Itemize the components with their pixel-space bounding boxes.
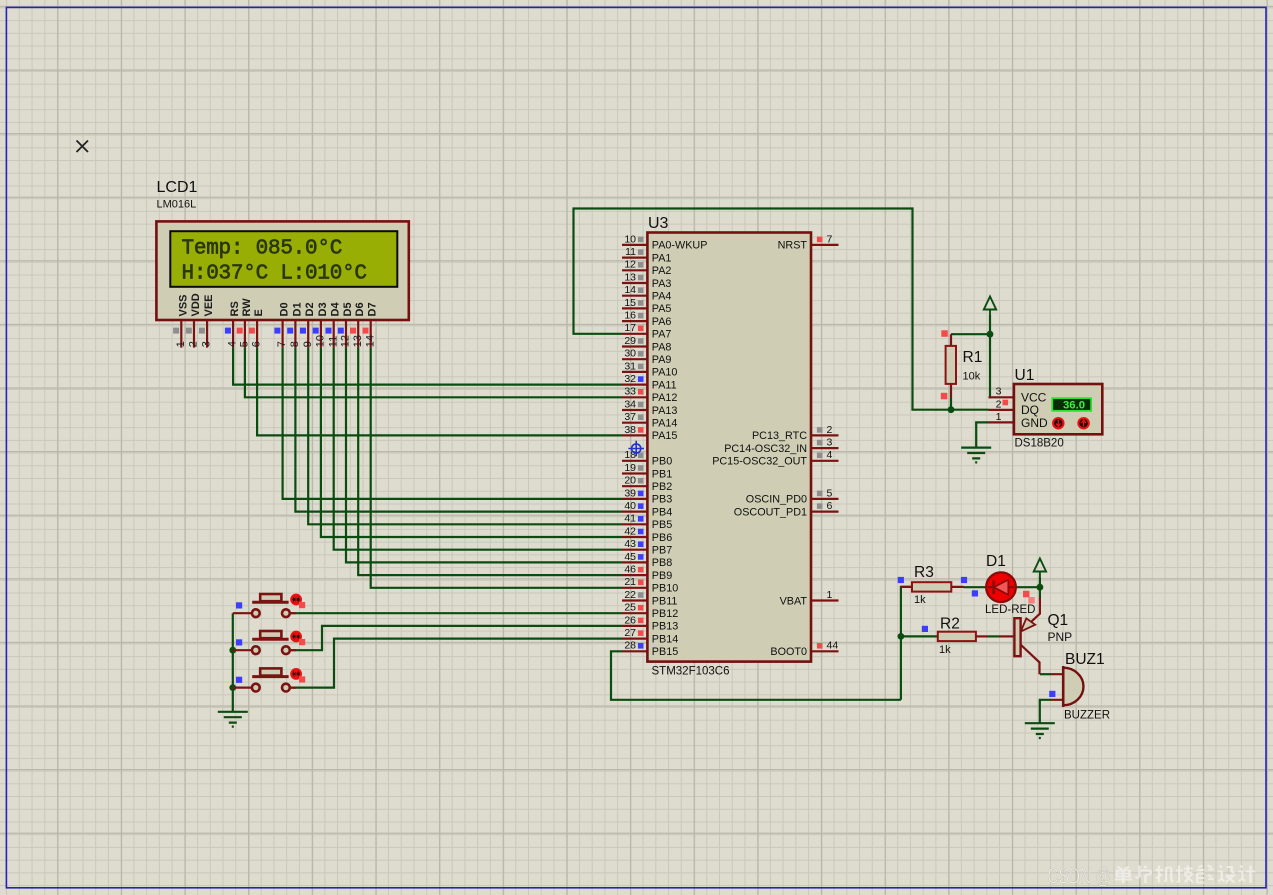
- svg-text:15: 15: [624, 297, 636, 309]
- LCD pin 13 square: [350, 328, 356, 334]
- wire D2 to PB5: [308, 348, 622, 525]
- ground DS18B20: [961, 448, 991, 463]
- svg-text:BUZ1: BUZ1: [1065, 651, 1105, 668]
- svg-text:Temp: 085.0°C: Temp: 085.0°C: [182, 238, 343, 261]
- wire D1 to PB4: [295, 348, 622, 512]
- svg-text:6: 6: [251, 341, 263, 347]
- svg-text:14: 14: [624, 284, 636, 296]
- LCD pin stubs: [181, 321, 370, 348]
- LCD pin 2 square: [186, 328, 192, 334]
- svg-text:5: 5: [239, 341, 251, 347]
- wire PA7 to DS18B20 DQ: [574, 209, 989, 410]
- svg-text:E: E: [253, 309, 265, 316]
- wire VCC rail to DS18B20: [989, 315, 991, 397]
- svg-text:PA12: PA12: [652, 392, 678, 404]
- svg-text:2: 2: [188, 341, 200, 347]
- svg-text:PB14: PB14: [652, 633, 678, 645]
- svg-text:PA11: PA11: [652, 379, 677, 391]
- svg-text:NRST: NRST: [778, 240, 808, 252]
- wire R2 left: [901, 635, 938, 637]
- svg-text:PA5: PA5: [652, 303, 672, 315]
- svg-text:PA8: PA8: [652, 341, 672, 353]
- svg-text:37: 37: [624, 411, 636, 423]
- svg-text:PB3: PB3: [652, 494, 672, 506]
- svg-text:DS18B20: DS18B20: [1015, 438, 1064, 450]
- LCD pin 6 square: [249, 328, 255, 334]
- LCD pin 4 square: [225, 328, 231, 334]
- svg-text:PA10: PA10: [652, 367, 678, 379]
- marker X: [77, 141, 89, 153]
- svg-text:D0: D0: [279, 302, 291, 316]
- wire D4 to PB7: [334, 348, 622, 550]
- svg-text:3: 3: [827, 437, 833, 449]
- svg-text:21: 21: [624, 576, 636, 588]
- LCD pin 1 square: [173, 328, 179, 334]
- svg-text:U3: U3: [648, 215, 669, 232]
- svg-text:PB1: PB1: [652, 468, 672, 480]
- svg-text:1: 1: [175, 341, 187, 347]
- resistor R1: [950, 334, 952, 397]
- LCD pin 11 square: [326, 328, 332, 334]
- ground buzzer: [1025, 723, 1055, 738]
- svg-text:10k: 10k: [963, 371, 981, 383]
- svg-text:12: 12: [624, 259, 636, 271]
- svg-text:LCD1: LCD1: [157, 179, 198, 196]
- svg-text:25: 25: [624, 602, 636, 614]
- DS18B20 up button: [1078, 418, 1088, 428]
- svg-text:D5: D5: [342, 302, 354, 316]
- ground buttons: [218, 712, 248, 727]
- svg-text:BUZZER: BUZZER: [1064, 710, 1110, 722]
- svg-text:34: 34: [624, 398, 636, 410]
- svg-text:Q1: Q1: [1048, 612, 1069, 629]
- svg-text:2: 2: [827, 424, 833, 436]
- LCD pin 8 square: [287, 328, 293, 334]
- svg-text:RW: RW: [241, 298, 253, 317]
- svg-text:1k: 1k: [939, 644, 951, 656]
- svg-text:VDD: VDD: [190, 293, 202, 316]
- svg-text:CSDN @: CSDN @: [1048, 864, 1112, 889]
- transistor Q1 PNP: [988, 587, 1040, 674]
- svg-text:5: 5: [827, 487, 833, 499]
- push button B3 (to PB14): [233, 668, 305, 691]
- svg-text:33: 33: [624, 386, 636, 398]
- svg-text:1: 1: [827, 589, 833, 601]
- svg-text:28: 28: [624, 640, 636, 652]
- svg-text:11: 11: [625, 246, 636, 258]
- svg-text:3: 3: [201, 341, 213, 347]
- LCD screen: [170, 231, 397, 287]
- wire RS to PA11: [233, 348, 622, 385]
- svg-text:D2: D2: [304, 302, 316, 316]
- svg-text:3: 3: [996, 386, 1002, 398]
- LCD pin 10 square: [313, 328, 319, 334]
- svg-text:D1: D1: [291, 302, 303, 316]
- svg-text:R1: R1: [963, 349, 983, 366]
- svg-text:PC15-OSC32_OUT: PC15-OSC32_OUT: [712, 456, 807, 468]
- junction buttons row3: [229, 684, 236, 691]
- svg-text:45: 45: [624, 551, 636, 563]
- svg-text:8: 8: [289, 341, 301, 347]
- svg-text:VEE: VEE: [203, 294, 215, 316]
- svg-text:PB6: PB6: [652, 532, 672, 544]
- svg-text:R3: R3: [914, 564, 934, 581]
- svg-text:D1: D1: [986, 553, 1006, 570]
- svg-text:43: 43: [624, 538, 636, 550]
- svg-text:1: 1: [996, 411, 1002, 423]
- wire D6 to PB9: [358, 348, 622, 575]
- svg-text:7: 7: [276, 341, 288, 347]
- wire DS18B20 GND: [976, 422, 988, 447]
- svg-text:BOOT0: BOOT0: [770, 646, 807, 658]
- wire R1 top: [951, 333, 990, 335]
- svg-text:PA15: PA15: [652, 430, 678, 442]
- svg-text:38: 38: [624, 424, 636, 436]
- push button B2 (to PB13): [233, 631, 305, 654]
- svg-text:PA13: PA13: [652, 405, 678, 417]
- wire R1 bottom to DQ: [950, 397, 952, 410]
- svg-text:13: 13: [624, 271, 636, 283]
- wire buzzer to ground: [1040, 700, 1051, 723]
- svg-text:30: 30: [624, 348, 636, 360]
- svg-text:VSS: VSS: [177, 294, 189, 316]
- svg-text:PB8: PB8: [652, 557, 672, 569]
- svg-text:20: 20: [624, 475, 636, 487]
- LCD pin 14 square: [363, 328, 369, 334]
- wire R3R2 branch: [901, 587, 912, 700]
- svg-text:PA14: PA14: [652, 418, 678, 430]
- resistor R3: [901, 586, 964, 588]
- svg-text:PB13: PB13: [652, 621, 678, 633]
- svg-text:36.0: 36.0: [1063, 400, 1085, 412]
- junction D1 power: [1037, 584, 1044, 591]
- svg-text:22: 22: [624, 589, 636, 601]
- svg-text:PB7: PB7: [652, 545, 672, 557]
- MCU origin crosshair: [628, 441, 644, 457]
- svg-text:PB4: PB4: [652, 506, 672, 518]
- svg-text:42: 42: [624, 525, 636, 537]
- svg-text:1k: 1k: [914, 594, 926, 606]
- svg-text:16: 16: [624, 310, 636, 322]
- wire D0 to PB3: [283, 348, 622, 499]
- svg-text:10: 10: [315, 335, 327, 347]
- svg-text:PA2: PA2: [652, 265, 672, 277]
- svg-text:11: 11: [327, 336, 339, 347]
- svg-text:LED-RED: LED-RED: [985, 604, 1035, 616]
- DS18B20 down button: [1053, 418, 1063, 428]
- wire D3 to PB6: [321, 348, 622, 537]
- svg-text:PC14-OSC32_IN: PC14-OSC32_IN: [724, 443, 807, 455]
- svg-text:PA0-WKUP: PA0-WKUP: [652, 240, 708, 252]
- wire buttons common: [232, 613, 234, 712]
- svg-text:H:037°C L:010°C: H:037°C L:010°C: [182, 263, 367, 286]
- MCU right pin stubs: [811, 245, 839, 651]
- DS18B20 U1 body: [1014, 384, 1102, 434]
- svg-text:40: 40: [624, 500, 636, 512]
- svg-text:10: 10: [624, 233, 636, 245]
- svg-text:18: 18: [624, 449, 636, 461]
- svg-text:13: 13: [352, 335, 364, 347]
- svg-text:7: 7: [827, 233, 833, 245]
- junction R2 R3: [898, 633, 905, 640]
- svg-text:PA6: PA6: [652, 316, 672, 328]
- svg-text:PB11: PB11: [652, 595, 678, 607]
- LCD pin 9 square: [300, 328, 306, 334]
- svg-text:PB2: PB2: [652, 481, 672, 493]
- svg-text:D3: D3: [317, 302, 329, 316]
- svg-text:27: 27: [624, 627, 636, 639]
- svg-text:PC13_RTC: PC13_RTC: [752, 430, 807, 442]
- svg-text:PB10: PB10: [652, 583, 678, 595]
- svg-text:14: 14: [364, 335, 376, 347]
- wire button3 to PB14: [290, 639, 622, 688]
- power VCC arrow (D1): [1034, 559, 1046, 579]
- DS18B20 display: [1052, 398, 1091, 411]
- svg-text:LM016L: LM016L: [157, 199, 197, 211]
- svg-text:PB9: PB9: [652, 570, 672, 582]
- wire D7 to PB10: [371, 348, 622, 588]
- svg-text:D4: D4: [330, 302, 342, 317]
- svg-text:PA9: PA9: [652, 354, 672, 366]
- watermark: [1048, 864, 1256, 889]
- svg-text:D6: D6: [354, 302, 366, 316]
- MCU left pin stubs: [622, 245, 647, 651]
- svg-text:12: 12: [340, 335, 352, 347]
- svg-text:OSCOUT_PD1: OSCOUT_PD1: [734, 506, 807, 518]
- svg-text:D7: D7: [367, 302, 379, 316]
- svg-text:26: 26: [624, 614, 636, 626]
- svg-text:31: 31: [624, 360, 636, 372]
- junction buttons row2: [229, 647, 236, 654]
- LCD pin 5 square: [237, 328, 243, 334]
- svg-text:PA1: PA1: [652, 252, 672, 264]
- LCD pin 3 square: [199, 328, 205, 334]
- svg-text:4: 4: [227, 341, 239, 347]
- wire Q1 collector to buzzer: [1040, 673, 1051, 675]
- MCU U3 body: [647, 233, 811, 662]
- wire PB15 to R2/R3: [611, 651, 901, 700]
- wire R3 right to D1: [964, 586, 987, 588]
- svg-text:PA3: PA3: [652, 278, 672, 290]
- svg-text:17: 17: [624, 322, 636, 334]
- svg-text:PB0: PB0: [652, 456, 672, 468]
- push button B1 (to PB12): [233, 594, 305, 617]
- junction R1 top: [987, 331, 994, 338]
- LCD pin 7 square: [274, 328, 280, 334]
- LED D1: [986, 572, 1016, 602]
- svg-text:PA4: PA4: [652, 291, 672, 303]
- svg-text:9: 9: [302, 341, 314, 347]
- svg-text:44: 44: [827, 640, 839, 652]
- svg-text:PNP: PNP: [1048, 630, 1073, 644]
- power VCC arrow (R1): [984, 297, 996, 317]
- svg-text:STM32F103C6: STM32F103C6: [652, 666, 730, 678]
- svg-text:41: 41: [624, 513, 636, 525]
- svg-text:GND: GND: [1021, 416, 1048, 430]
- svg-text:U1: U1: [1015, 367, 1035, 384]
- svg-text:19: 19: [624, 462, 636, 474]
- wire button2 to PB13: [290, 626, 622, 650]
- svg-text:PB5: PB5: [652, 519, 672, 531]
- wire button1 to PB12: [290, 612, 622, 614]
- buzzer BUZ1: [1051, 666, 1083, 707]
- resistor R2: [976, 635, 988, 637]
- svg-text:46: 46: [624, 564, 636, 576]
- wire D5 to PB8: [346, 348, 622, 563]
- LCD LCD1 body: [156, 221, 408, 320]
- svg-text:PB12: PB12: [652, 608, 678, 620]
- svg-text:RS: RS: [229, 301, 241, 316]
- DS18B20 U1 pin stubs: [989, 397, 1014, 422]
- LCD pin 12 square: [338, 328, 344, 334]
- svg-text:PA7: PA7: [652, 329, 672, 341]
- wire D1 to power rail: [1016, 577, 1040, 587]
- svg-text:6: 6: [827, 500, 833, 512]
- svg-text:R2: R2: [940, 616, 960, 633]
- svg-text:32: 32: [624, 373, 636, 385]
- junction R1 bottom DQ: [948, 406, 955, 413]
- svg-text:29: 29: [624, 335, 636, 347]
- svg-text:4: 4: [827, 449, 833, 461]
- wire E to PA15: [257, 348, 622, 436]
- svg-text:PB15: PB15: [652, 646, 678, 658]
- svg-text:39: 39: [624, 487, 636, 499]
- svg-text:VBAT: VBAT: [780, 595, 808, 607]
- svg-text:2: 2: [996, 398, 1002, 410]
- svg-text:OSCIN_PD0: OSCIN_PD0: [746, 494, 807, 506]
- wire RW to PA12: [245, 348, 622, 398]
